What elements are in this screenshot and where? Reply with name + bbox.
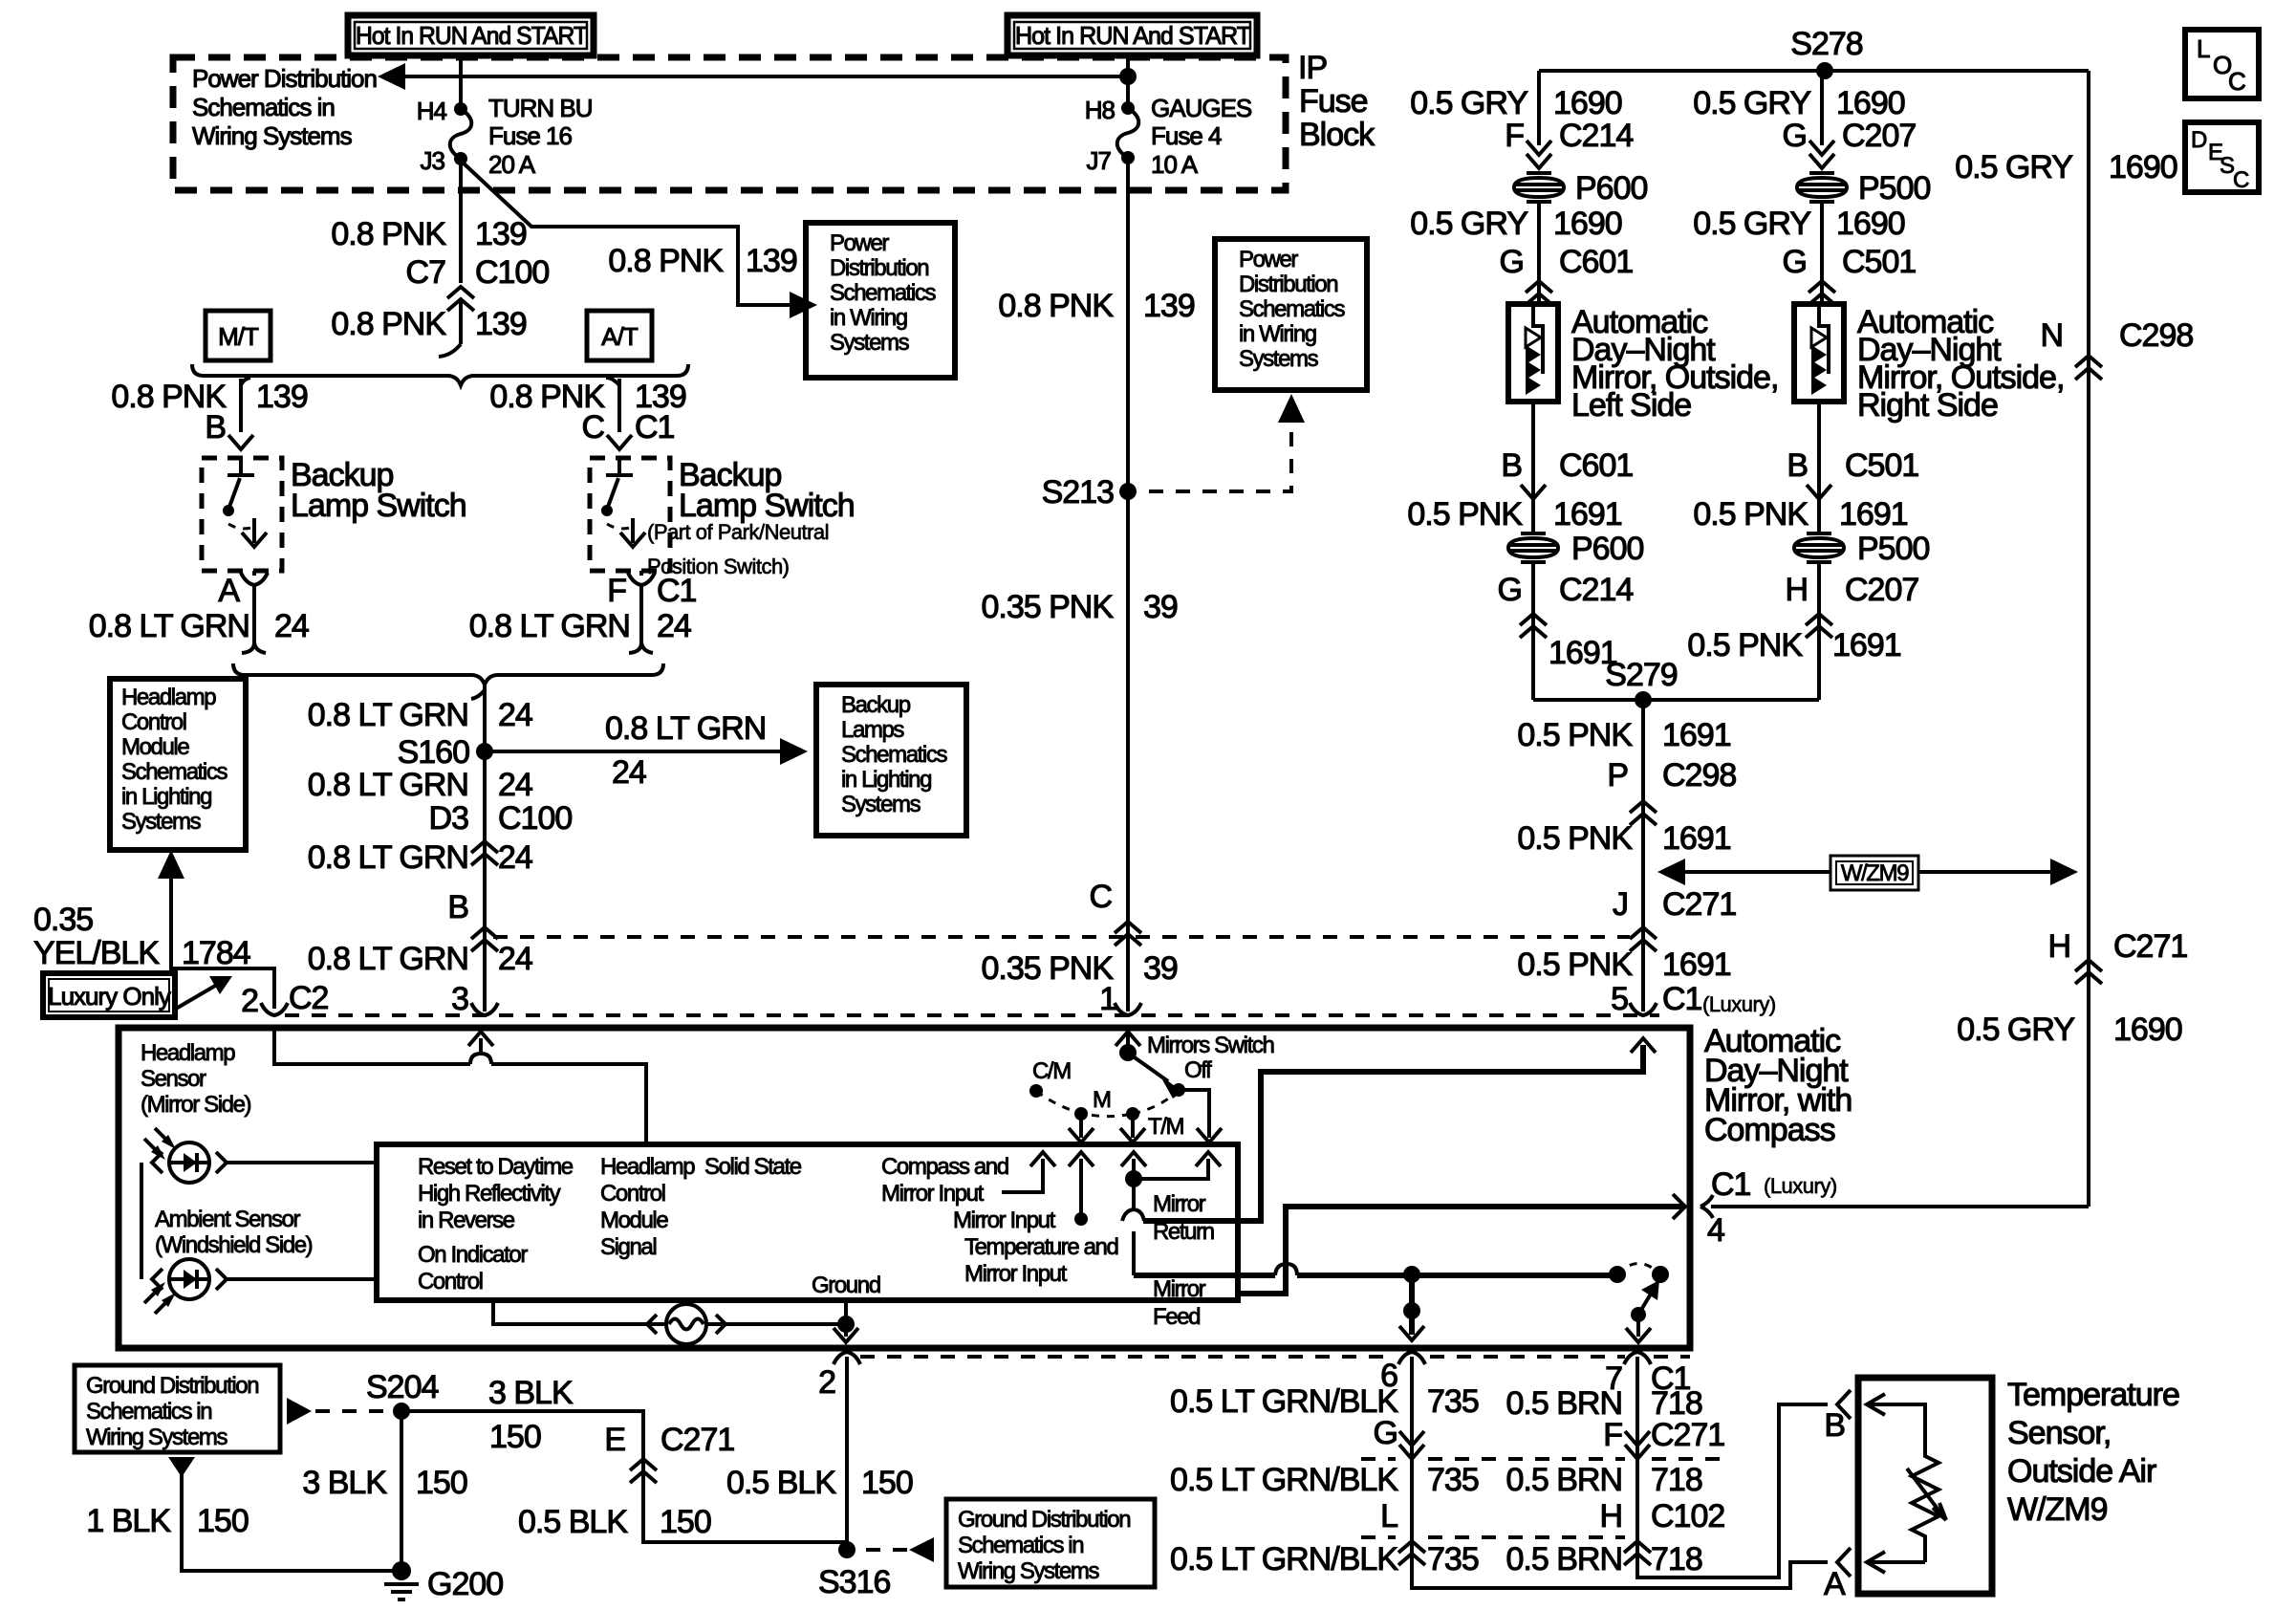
- fuse F4 terminal J7 dot: [1121, 151, 1135, 164]
- wire photodiode1 to inner box: [227, 1161, 377, 1164]
- svg-text:Right Side: Right Side: [1857, 387, 1998, 424]
- svg-text:1691: 1691: [1662, 717, 1731, 753]
- wire: [182, 1472, 401, 1571]
- svg-text:Feed: Feed: [1153, 1304, 1200, 1330]
- svg-text:Fuse 16: Fuse 16: [488, 121, 572, 150]
- svg-text:C271: C271: [2113, 928, 2187, 965]
- svg-text:Wiring Systems: Wiring Systems: [86, 1425, 227, 1450]
- svg-text:735: 735: [1427, 1541, 1479, 1577]
- arrow from luxury only: [176, 982, 222, 1009]
- pin connector: [241, 573, 268, 585]
- A/T box: [587, 311, 652, 360]
- gather brace top: [192, 364, 688, 385]
- svg-text:(Luxury): (Luxury): [1764, 1174, 1837, 1198]
- fuse F16 terminal H4 dot: [454, 102, 467, 116]
- headlamp control module schematics box: [110, 679, 246, 850]
- svg-text:Systems: Systems: [1239, 346, 1319, 372]
- svg-text:P600: P600: [1575, 170, 1647, 207]
- dot: [1609, 1266, 1626, 1283]
- svg-text:139: 139: [475, 216, 527, 252]
- wire A (pin4) inside module: [1241, 1207, 1685, 1294]
- dashed line: [315, 1409, 386, 1413]
- wire: [1179, 1090, 1209, 1138]
- wire: [1399, 1431, 1424, 1459]
- B pin: [1837, 1390, 1851, 1419]
- svg-text:YEL/BLK: YEL/BLK: [33, 935, 160, 971]
- dashed line: [1361, 1535, 1625, 1539]
- svg-text:C601: C601: [1559, 244, 1633, 280]
- pin 7 chain x=1713: [1624, 1352, 1651, 1364]
- svg-text:C102: C102: [1651, 1498, 1724, 1534]
- inline connector chevrons: [1115, 922, 1141, 946]
- svg-text:Compass and: Compass and: [881, 1154, 1008, 1180]
- dashed line: [1617, 1264, 1660, 1275]
- dashed line: [1361, 1457, 1721, 1461]
- arrowhead: [1641, 1280, 1659, 1300]
- svg-text:0.8 PNK: 0.8 PNK: [331, 306, 446, 342]
- svg-text:0.8 LT GRN: 0.8 LT GRN: [308, 941, 468, 977]
- svg-text:S160: S160: [398, 734, 469, 771]
- dashed separator above module: [285, 1013, 1659, 1017]
- svg-text:0.8 LT GRN: 0.8 LT GRN: [308, 697, 468, 733]
- wire: [1636, 1315, 1640, 1337]
- svg-text:J: J: [1613, 886, 1628, 923]
- svg-text:Wiring Systems: Wiring Systems: [958, 1558, 1099, 1584]
- wire: [1638, 1291, 1653, 1315]
- node S160: [476, 743, 493, 760]
- wire: [1539, 69, 2089, 73]
- A/T branch wire: [617, 379, 621, 432]
- svg-text:C/M: C/M: [1032, 1058, 1071, 1084]
- dashed separator C271-ish upper: [493, 935, 1630, 939]
- svg-text:C207: C207: [1842, 118, 1916, 154]
- svg-text:1691: 1691: [1832, 627, 1901, 664]
- svg-text:C: C: [2228, 67, 2245, 96]
- wire: [242, 642, 266, 653]
- svg-text:1691: 1691: [1662, 946, 1731, 983]
- svg-text:A: A: [1824, 1566, 1846, 1602]
- svg-text:Schematics: Schematics: [1239, 296, 1345, 322]
- svg-text:Control: Control: [121, 709, 186, 735]
- svg-text:Ground: Ground: [812, 1273, 880, 1298]
- svg-text:0.35 PNK: 0.35 PNK: [981, 950, 1114, 987]
- mirror right component: [1794, 304, 1844, 402]
- arrow from box to S204: [287, 1398, 312, 1425]
- svg-text:Control: Control: [418, 1269, 483, 1295]
- svg-text:0.5 GRY: 0.5 GRY: [1693, 85, 1810, 121]
- svg-text:1690: 1690: [1553, 206, 1622, 242]
- svg-text:0.8 PNK: 0.8 PNK: [608, 243, 724, 279]
- arrow: [1626, 1328, 1651, 1342]
- svg-text:Module: Module: [600, 1207, 668, 1233]
- wire S279 down to module pin 5: [1641, 700, 1645, 1012]
- dot: [666, 1304, 706, 1344]
- wire: [844, 1300, 848, 1337]
- svg-text:(Part of Park/Neutral: (Part of Park/Neutral: [647, 520, 829, 544]
- svg-text:Mirror Input: Mirror Input: [964, 1261, 1068, 1287]
- svg-text:in Lighting: in Lighting: [121, 784, 211, 810]
- svg-text:S279: S279: [1605, 657, 1677, 693]
- arrow: [1399, 1326, 1424, 1340]
- svg-text:24: 24: [274, 608, 309, 644]
- svg-text:Distribution: Distribution: [830, 255, 928, 281]
- svg-text:F: F: [1603, 1417, 1622, 1453]
- svg-text:0.35: 0.35: [33, 902, 93, 938]
- svg-text:C271: C271: [1662, 886, 1736, 923]
- pin 3 internal arrow: [479, 1038, 483, 1052]
- wire: [1131, 1114, 1135, 1138]
- wire photodiode2 to inner box: [227, 1277, 377, 1281]
- svg-text:Solid State: Solid State: [704, 1154, 802, 1180]
- svg-text:Lamps: Lamps: [841, 717, 904, 743]
- dot: [1074, 1107, 1088, 1120]
- arrowhead: [780, 738, 808, 765]
- switch blade: [1132, 1055, 1168, 1081]
- module outer box: [119, 1028, 1690, 1348]
- wire: [845, 1357, 849, 1550]
- inline connector chevrons: [471, 927, 498, 951]
- svg-text:Power: Power: [830, 230, 889, 256]
- gather brace 2: [233, 664, 663, 685]
- inline connector chevrons: [1806, 614, 1832, 638]
- svg-text:150: 150: [197, 1503, 249, 1539]
- svg-text:C501: C501: [1842, 244, 1916, 280]
- svg-text:J7: J7: [1087, 146, 1112, 175]
- dot: [1652, 1266, 1669, 1283]
- luxury only box: [43, 973, 175, 1017]
- wire: [1625, 1431, 1650, 1459]
- svg-text:0.5 GRY: 0.5 GRY: [1410, 85, 1527, 121]
- A/T exit wire to F C1: [639, 571, 643, 576]
- svg-text:Temperature and: Temperature and: [964, 1234, 1117, 1260]
- pin 1 internal: mirrors switch: [1116, 1032, 1140, 1046]
- switch AT pivot dot: [601, 505, 613, 516]
- wire: [1867, 1552, 1925, 1573]
- wire 0.35 YEL/BLK 1784 with arrow into box: [171, 871, 274, 1009]
- node S204: [393, 1403, 410, 1420]
- arrowhead: [2050, 859, 2078, 885]
- svg-text:H: H: [1785, 572, 1808, 608]
- svg-text:Ground Distribution: Ground Distribution: [958, 1507, 1130, 1533]
- svg-text:C207: C207: [1845, 572, 1918, 608]
- arrow: [1121, 1152, 1146, 1166]
- 1 BLK wire from left box: [168, 1457, 195, 1477]
- svg-text:in Wiring: in Wiring: [1239, 321, 1316, 347]
- wire: crossover from right feed to Power Distribution arrow: [401, 75, 1128, 78]
- switch MT pivot dot: [223, 505, 234, 516]
- wire: [1531, 499, 1535, 534]
- arrowhead: [1159, 1075, 1182, 1099]
- wire: [1531, 562, 1535, 700]
- wire: [1817, 402, 1821, 476]
- wire: [1711, 1205, 2089, 1208]
- svg-text:L: L: [1380, 1498, 1397, 1534]
- node: junction on right feed: [1119, 68, 1137, 85]
- dashed line: [1149, 409, 1291, 491]
- wire: [639, 585, 643, 642]
- svg-text:W/ZM9: W/ZM9: [2007, 1491, 2108, 1528]
- pin connector: [1115, 1003, 1141, 1015]
- svg-text:0.8 LT GRN: 0.8 LT GRN: [469, 608, 630, 644]
- svg-text:D: D: [2191, 127, 2207, 153]
- arrow: [468, 1032, 493, 1046]
- wire: [706, 1322, 846, 1326]
- arrowhead: [158, 850, 184, 879]
- svg-text:150: 150: [416, 1465, 467, 1501]
- mirror return arrows: [1132, 1159, 1136, 1275]
- svg-text:2: 2: [818, 1364, 835, 1401]
- svg-text:0.5 PNK: 0.5 PNK: [1687, 627, 1803, 664]
- svg-text:Headlamp: Headlamp: [600, 1154, 695, 1180]
- junction dot: [837, 1316, 855, 1333]
- wire: [252, 585, 256, 642]
- wire: [1134, 1159, 1208, 1179]
- thermistor inside: [1912, 1431, 1939, 1562]
- svg-text:1691: 1691: [1839, 496, 1908, 533]
- svg-text:0.5 BLK: 0.5 BLK: [726, 1465, 836, 1501]
- svg-text:Left Side: Left Side: [1571, 387, 1691, 424]
- fuse F16 TURN BU element: [450, 109, 472, 159]
- svg-text:C501: C501: [1845, 447, 1918, 484]
- junction dot: [1816, 62, 1833, 79]
- junction dot: [1125, 1170, 1142, 1187]
- svg-text:0.8 LT GRN: 0.8 LT GRN: [308, 839, 468, 876]
- wire S204 down to G200: [400, 1411, 403, 1571]
- svg-text:On Indicator: On Indicator: [418, 1242, 528, 1268]
- svg-text:1690: 1690: [2109, 149, 2177, 185]
- svg-text:C7: C7: [406, 254, 446, 291]
- mirror feed wire: [1134, 1273, 1617, 1278]
- svg-text:0.5 LT GRN/BLK: 0.5 LT GRN/BLK: [1170, 1462, 1398, 1498]
- svg-text:0.5 LT GRN/BLK: 0.5 LT GRN/BLK: [1170, 1383, 1398, 1420]
- svg-text:Module: Module: [121, 734, 189, 760]
- svg-text:3 BLK: 3 BLK: [302, 1465, 387, 1501]
- arrow: [1197, 1128, 1222, 1142]
- svg-text:0.8 PNK: 0.8 PNK: [331, 216, 446, 252]
- svg-text:B: B: [1824, 1407, 1845, 1444]
- indicator lamp: [493, 1300, 666, 1324]
- inline connector chevrons: [1809, 281, 1835, 305]
- svg-text:0.5 GRY: 0.5 GRY: [1410, 206, 1527, 242]
- wire: [1079, 1159, 1083, 1219]
- hot in run and start box (right): [1007, 15, 1257, 55]
- svg-text:Headlamp: Headlamp: [121, 685, 216, 710]
- svg-text:M/T: M/T: [218, 322, 259, 351]
- svg-text:24: 24: [498, 767, 532, 803]
- M/T box: [206, 311, 271, 360]
- LOC box: [2185, 30, 2259, 98]
- junction dot: [1403, 1302, 1420, 1319]
- svg-text:Lamp Switch: Lamp Switch: [291, 488, 466, 524]
- switch MT output arrow: [242, 533, 267, 547]
- svg-text:A: A: [218, 573, 240, 609]
- box: [1836, 861, 1913, 884]
- svg-text:39: 39: [1143, 950, 1178, 987]
- svg-text:Mirrors Switch: Mirrors Switch: [1147, 1033, 1273, 1058]
- svg-text:Temperature: Temperature: [2007, 1377, 2179, 1413]
- node S213 + dashed arrow to box 2: [1119, 483, 1137, 500]
- junction dot: [1119, 1044, 1137, 1061]
- pin 6 chain x=1477: [1398, 1352, 1425, 1364]
- contact drops: [1079, 1114, 1083, 1138]
- backup lamps schematics box: [816, 685, 966, 836]
- connector P500 upper: [1797, 173, 1847, 202]
- svg-text:1690: 1690: [1553, 85, 1622, 121]
- svg-text:C214: C214: [1559, 118, 1633, 154]
- wire: J7 down to S213 and module: [1126, 158, 1130, 1012]
- svg-text:B: B: [1787, 447, 1808, 484]
- svg-text:39: 39: [1143, 589, 1178, 625]
- ground distribution box (right): [946, 1499, 1155, 1587]
- RIGHT RAIL x=2185: [2087, 71, 2090, 1207]
- wire: [241, 378, 250, 385]
- svg-text:G: G: [1500, 244, 1524, 280]
- svg-text:(Luxury): (Luxury): [1702, 992, 1776, 1016]
- svg-text:C2: C2: [289, 980, 329, 1016]
- mirror left component: [1508, 304, 1558, 402]
- switch AT travel arc: [607, 524, 633, 529]
- svg-text:Mirror Input: Mirror Input: [881, 1181, 985, 1207]
- svg-text:G: G: [1783, 118, 1807, 154]
- dot: [1172, 1083, 1185, 1097]
- arrow: [834, 1328, 858, 1342]
- svg-text:0.5 BLK: 0.5 BLK: [518, 1504, 628, 1540]
- svg-text:0.5 LT GRN/BLK: 0.5 LT GRN/BLK: [1170, 1541, 1398, 1577]
- svg-text:Distribution: Distribution: [1239, 272, 1337, 297]
- mirror return wire: [1143, 1045, 1643, 1221]
- wire from brace down (S160 leg): [483, 685, 487, 1012]
- inline connector chevrons: [630, 1459, 657, 1483]
- small curl at end: [439, 344, 461, 357]
- wire: [471, 690, 485, 699]
- svg-text:Mirror Input: Mirror Input: [953, 1207, 1056, 1233]
- internal arrows to pins: [1867, 1394, 1925, 1431]
- pin connector: [261, 1003, 288, 1015]
- photodiode 1 (headlamp sensor): [152, 1142, 227, 1183]
- svg-text:A/T: A/T: [601, 322, 639, 351]
- svg-text:F: F: [1505, 118, 1524, 154]
- pin 2 internal wire: [274, 1031, 646, 1144]
- svg-text:Schematics: Schematics: [121, 759, 227, 785]
- svg-text:0.5 PNK: 0.5 PNK: [1693, 496, 1809, 533]
- svg-text:M: M: [1093, 1087, 1111, 1113]
- svg-text:24: 24: [498, 941, 532, 977]
- svg-text:C100: C100: [475, 254, 549, 291]
- svg-text:718: 718: [1651, 1541, 1702, 1577]
- arrow: [1631, 1038, 1656, 1053]
- arrowhead left: [378, 63, 405, 90]
- svg-text:0.5 GRY: 0.5 GRY: [1693, 206, 1810, 242]
- switch MT output contact: [252, 518, 256, 543]
- arrow: [228, 435, 253, 449]
- arrow: [1069, 1128, 1094, 1142]
- svg-text:Block: Block: [1299, 117, 1375, 153]
- svg-text:150: 150: [861, 1465, 913, 1501]
- svg-text:1784: 1784: [182, 935, 250, 971]
- wire: [1122, 1209, 1144, 1221]
- pin connector: [1630, 1003, 1657, 1015]
- svg-text:Fuse 4: Fuse 4: [1151, 121, 1222, 150]
- hot in run and start box (left): [348, 15, 594, 55]
- arrow: [1030, 1152, 1055, 1166]
- connector P600 lower: [1508, 533, 1558, 562]
- DESC box: [2185, 122, 2259, 192]
- switch AT blade: [608, 478, 618, 507]
- svg-text:C298: C298: [2119, 317, 2193, 354]
- svg-text:139: 139: [256, 379, 308, 415]
- A pin: [1837, 1548, 1851, 1577]
- svg-text:0.5 PNK: 0.5 PNK: [1517, 717, 1633, 753]
- svg-text:L: L: [2197, 34, 2210, 63]
- svg-text:P600: P600: [1571, 531, 1643, 567]
- arrow: [1527, 141, 1551, 155]
- svg-text:4: 4: [1707, 1212, 1724, 1249]
- svg-text:Power: Power: [1239, 247, 1298, 272]
- svg-text:0.8 LT GRN: 0.8 LT GRN: [89, 608, 249, 644]
- svg-text:Sensor: Sensor: [141, 1066, 206, 1092]
- arrowhead: [790, 292, 817, 318]
- fuse F4 terminal H8 dot: [1121, 101, 1135, 115]
- junction dot: [1635, 691, 1652, 708]
- svg-text:P: P: [1607, 757, 1628, 794]
- arrow: [1527, 154, 1551, 168]
- svg-text:Mirror: Mirror: [1153, 1276, 1206, 1302]
- svg-text:0.5 BRN: 0.5 BRN: [1506, 1541, 1623, 1577]
- svg-text:in Lighting: in Lighting: [841, 767, 931, 793]
- svg-text:B: B: [1501, 447, 1522, 484]
- wire: [459, 300, 463, 344]
- wire: [1907, 1469, 1946, 1520]
- wire: J3 down to C100: [459, 159, 463, 283]
- svg-text:C1: C1: [1711, 1166, 1751, 1203]
- backup lamp switch box (A/T): [590, 458, 670, 571]
- svg-text:Control: Control: [600, 1181, 665, 1207]
- junction dot: [1403, 1266, 1420, 1283]
- svg-text:Schematics in: Schematics in: [192, 93, 335, 121]
- svg-text:E: E: [604, 1422, 625, 1458]
- W/ZM9 reference: [1680, 870, 2055, 874]
- svg-text:in Reverse: in Reverse: [418, 1207, 515, 1233]
- dashed connector line under module: [860, 1355, 1690, 1359]
- svg-text:High Reflectivity: High Reflectivity: [418, 1181, 561, 1207]
- connector C100 lower chevrons: [471, 841, 498, 865]
- svg-text:24: 24: [498, 839, 532, 876]
- fuse F4 GAUGES element: [1117, 108, 1139, 158]
- svg-text:T/M: T/M: [1148, 1114, 1184, 1140]
- svg-text:S278: S278: [1790, 26, 1862, 62]
- svg-text:0.8 PNK: 0.8 PNK: [998, 288, 1114, 324]
- switch MT fixed contact: [227, 458, 254, 475]
- wire: [1002, 1159, 1043, 1192]
- svg-text:in Wiring: in Wiring: [830, 305, 907, 331]
- power distribution schematics box 1: [806, 223, 955, 378]
- svg-text:Systems: Systems: [830, 330, 910, 356]
- inline connector chevrons: [1630, 927, 1657, 951]
- svg-text:Systems: Systems: [841, 792, 921, 817]
- svg-text:10 A: 10 A: [1151, 150, 1199, 179]
- wire: [1817, 499, 1821, 534]
- connector P600 upper: [1514, 173, 1564, 202]
- svg-text:Sensor,: Sensor,: [2007, 1415, 2111, 1451]
- sensor left rail: [140, 1163, 143, 1279]
- dot: [1074, 1212, 1088, 1226]
- svg-text:20 A: 20 A: [488, 150, 536, 179]
- svg-text:TURN BU: TURN BU: [488, 94, 593, 122]
- switch MT blade: [229, 478, 240, 507]
- feed junction down to pin 6: [1409, 1274, 1415, 1335]
- arrow: [1069, 1152, 1094, 1166]
- box: [1830, 856, 1918, 890]
